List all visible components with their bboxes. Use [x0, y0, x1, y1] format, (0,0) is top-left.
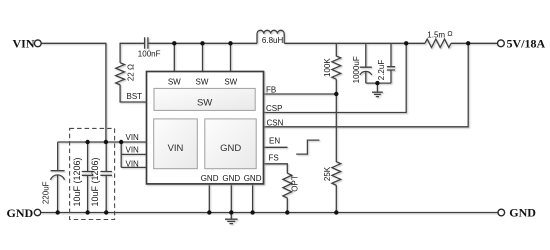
IC inner block VIN: [154, 119, 198, 169]
capacitor C-OUT2 2.2uF: [387, 43, 395, 83]
capacitor C-IN 220uF: [51, 142, 65, 213]
wire VIN input: [41, 43, 106, 142]
svg-text:10uF (1206): 10uF (1206): [72, 157, 82, 206]
svg-text:6.8uH: 6.8uH: [262, 36, 284, 45]
ground symbol IC: [225, 213, 238, 224]
svg-text:100nF: 100nF: [138, 49, 161, 58]
wire CSN: [264, 43, 469, 127]
svg-text:VIN: VIN: [126, 133, 140, 142]
svg-text:1.5m Ω: 1.5m Ω: [427, 31, 452, 40]
terminal 5V/18A: [498, 40, 505, 47]
svg-text:GND: GND: [201, 174, 219, 183]
capacitor C-OUT 1000uF: [360, 43, 372, 83]
resistor R-BST 22ohm: [116, 63, 125, 85]
wire BST branch top: [120, 43, 144, 62]
resistor R-FB 100K: [332, 43, 341, 94]
svg-text:VIN: VIN: [126, 159, 140, 168]
svg-text:SW: SW: [196, 78, 209, 87]
wire FS: [264, 164, 288, 173]
svg-text:GND: GND: [220, 143, 241, 154]
svg-text:EN: EN: [269, 136, 280, 145]
capacitor C2 10uF: [100, 142, 112, 213]
wire GND pins: [209, 184, 252, 213]
terminal GND right: [498, 209, 505, 216]
wire VIN cap rail: [58, 141, 147, 143]
inductor L1 6.8uH: [257, 30, 284, 43]
svg-text:GND: GND: [7, 206, 34, 220]
svg-text:CSP: CSP: [266, 104, 282, 113]
resistor R-FS OPT: [283, 173, 292, 212]
svg-text:5V/18A: 5V/18A: [507, 37, 546, 51]
terminal VIN: [34, 40, 41, 47]
wire SW pin drops: [174, 43, 230, 71]
ground symbol output caps: [372, 83, 383, 97]
svg-text:VIN: VIN: [168, 143, 184, 154]
wire EN stub: [264, 146, 288, 148]
svg-text:220uF: 220uF: [42, 181, 51, 204]
wire BST to pin: [120, 85, 146, 102]
junction dots: [172, 41, 176, 45]
svg-text:1000uF: 1000uF: [352, 56, 361, 83]
svg-text:SW: SW: [224, 78, 237, 87]
IC inner block SW: [154, 88, 255, 110]
wire output rail: [284, 42, 497, 44]
svg-text:SW: SW: [168, 78, 181, 87]
wire GND rail: [41, 212, 498, 214]
svg-text:SW: SW: [197, 98, 212, 109]
svg-text:2.2uF: 2.2uF: [377, 60, 386, 81]
wire FB: [264, 93, 337, 95]
capacitor C1 10uF: [82, 142, 94, 213]
wire VIN pin branch: [121, 142, 146, 167]
svg-text:22 Ω: 22 Ω: [126, 64, 135, 81]
wire CSP: [264, 43, 407, 112]
capacitor 100nF plates: [145, 37, 148, 48]
svg-text:10uF (1206): 10uF (1206): [90, 157, 100, 206]
EN rising edge symbol: [296, 140, 319, 154]
svg-text:BST: BST: [127, 92, 143, 101]
terminal GND left: [34, 209, 40, 215]
resistor R-FB2 25K: [332, 94, 341, 213]
IC inner block GND: [205, 119, 256, 169]
svg-text:25K: 25K: [323, 166, 332, 181]
svg-text:GND: GND: [244, 174, 262, 183]
svg-text:OPT: OPT: [291, 175, 300, 192]
svg-text:VIN: VIN: [126, 146, 140, 155]
svg-text:GND: GND: [509, 205, 536, 219]
wire SW rail: [148, 42, 257, 44]
dashed optional box: [70, 128, 115, 219]
svg-text:VIN: VIN: [13, 37, 35, 51]
wire output cap join: [366, 82, 391, 84]
svg-text:100K: 100K: [323, 58, 332, 77]
IC body U1: [147, 72, 264, 184]
resistor shunt 1.5mOhm: [425, 39, 451, 47]
svg-text:GND: GND: [222, 174, 240, 183]
svg-text:CSN: CSN: [267, 118, 284, 127]
svg-text:FS: FS: [269, 153, 279, 162]
svg-text:FB: FB: [266, 86, 276, 95]
